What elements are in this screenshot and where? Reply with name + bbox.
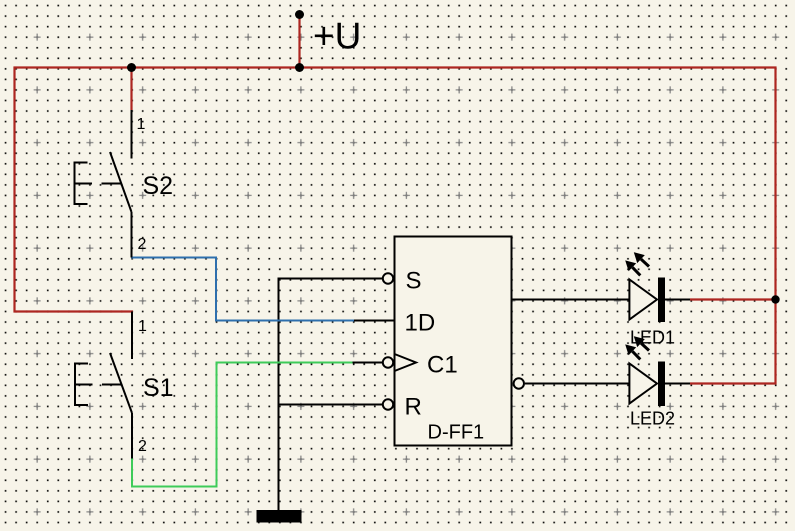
- svg-text:C1: C1: [427, 352, 458, 379]
- LED2 cathode bar: [658, 362, 665, 407]
- wire black LED2 right stub: [664, 383, 690, 385]
- svg-text:1: 1: [137, 116, 146, 133]
- svg-text:1D: 1D: [405, 310, 436, 337]
- switch S1: [75, 312, 174, 459]
- wire black ground vertical and S feed: [279, 279, 383, 511]
- S1 pin 1: [131, 312, 133, 360]
- wire black Q output: [512, 299, 630, 301]
- svg-text:2: 2: [138, 438, 147, 455]
- D-FF1 body: [395, 237, 512, 446]
- wire red top rail: [14, 66, 777, 68]
- wire red LED1 to junction: [690, 298, 776, 300]
- LED2: [625, 336, 675, 428]
- svg-text:R: R: [405, 394, 422, 421]
- S2 actuator: [75, 163, 88, 205]
- LED1: [625, 252, 675, 347]
- D-FF1 C1 input bubble: [383, 357, 393, 367]
- S2 pin 1: [131, 110, 133, 159]
- LED2 arrow upper: [634, 336, 649, 350]
- LED1 cathode bar: [658, 278, 665, 323]
- LED1 arrow upper: [634, 252, 649, 266]
- D-FF1 R input bubble: [383, 399, 393, 409]
- LED1 arrow lower: [625, 260, 640, 275]
- LED2 triangle: [629, 364, 657, 404]
- S2 actuator link: [75, 183, 121, 185]
- wire black R feed: [278, 404, 383, 406]
- wire black Qn output: [525, 383, 629, 385]
- svg-text:2: 2: [138, 236, 147, 253]
- svg-text:+U: +U: [313, 16, 361, 57]
- node +U: [295, 10, 304, 19]
- svg-text:LED2: LED2: [630, 409, 675, 429]
- node LED junction: [771, 295, 779, 303]
- D-FF1 Qn output bubble: [514, 378, 524, 388]
- S1 actuator link: [76, 384, 122, 386]
- S1 pin 2: [131, 413, 133, 459]
- wire black 1D stub: [354, 320, 394, 322]
- node rail-S2: [127, 63, 136, 72]
- svg-text:S: S: [406, 268, 422, 295]
- wire blue S2 to 1D: [131, 258, 354, 321]
- switch S2: [75, 110, 174, 258]
- ground: [257, 510, 302, 523]
- wire red +U stub: [298, 15, 300, 69]
- svg-text:1: 1: [138, 318, 147, 335]
- S2 pin 2: [131, 212, 133, 258]
- D-FF1 clock triangle: [395, 354, 417, 371]
- LED1 triangle: [629, 280, 657, 320]
- wire black C1 stub: [353, 362, 383, 364]
- svg-text:S1: S1: [143, 374, 174, 402]
- wire green S1 to C1: [132, 363, 353, 487]
- wire black LED1 right stub: [664, 299, 690, 301]
- LED2 arrow lower: [625, 344, 640, 359]
- S1 actuator: [75, 364, 88, 406]
- wire red S2 feed: [130, 67, 132, 111]
- node rail-+U: [295, 63, 304, 72]
- S2 arm: [110, 152, 132, 212]
- S1 arm: [110, 353, 132, 413]
- D-FF1 S input bubble: [383, 273, 393, 283]
- flip-flop U1 D-FF1: [383, 237, 524, 446]
- svg-text:S2: S2: [143, 172, 174, 200]
- wire red LED2 return: [690, 382, 777, 384]
- svg-text:D-FF1: D-FF1: [428, 422, 485, 444]
- wire red left drop: [13, 67, 15, 313]
- wire red right drop: [774, 67, 776, 385]
- wire red S1 feed: [14, 310, 134, 312]
